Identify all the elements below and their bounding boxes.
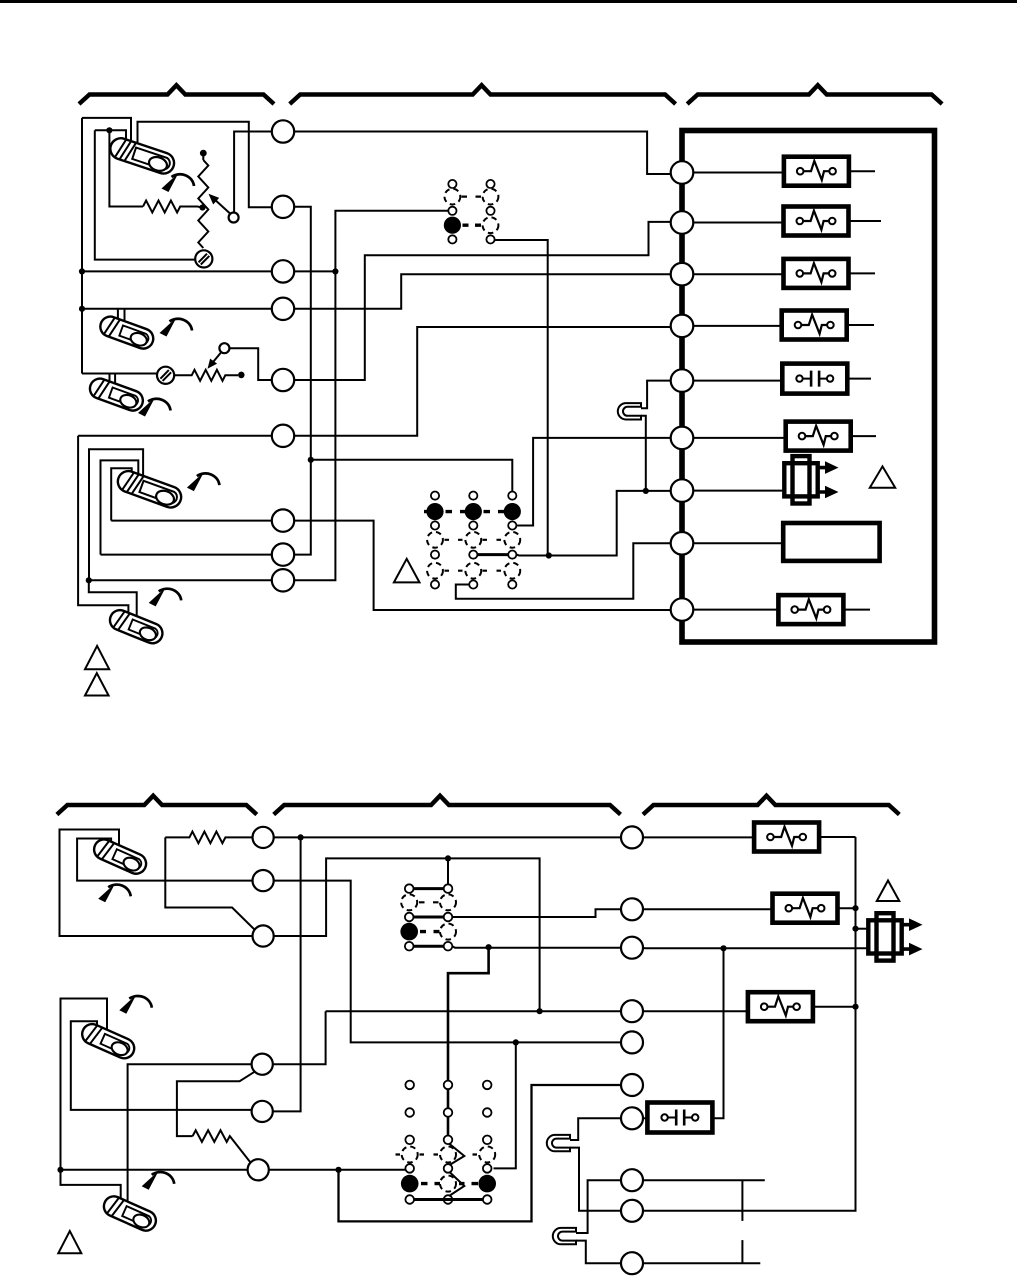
wire: inner loop bulb 1 to terminal B2 <box>77 839 252 881</box>
thermostat terminal T8 <box>272 543 294 565</box>
note triangle at transformer <box>870 466 895 487</box>
wire: wiper to terminal T1 <box>234 132 272 213</box>
mercury bulb switch bottom 2 <box>79 1021 137 1062</box>
wire: T7 bracket to bulb 4 lead 3 <box>111 468 132 520</box>
mercury bulb switch bottom 1 <box>91 836 149 877</box>
junction dot T4 line on left bus <box>79 306 85 312</box>
relay coil R4 <box>782 311 847 340</box>
pilot lamp bottom 2 <box>553 1228 576 1244</box>
thermostat terminal T3 <box>272 260 294 282</box>
lower connector cluster column 1 <box>426 492 443 589</box>
junction dot row 947 <box>486 944 492 950</box>
junction dot BR3 lead <box>852 1004 858 1010</box>
wire: T1 to equipment terminal 1 <box>294 132 671 175</box>
rotation arc arrow bulb 4 <box>187 472 220 491</box>
brace 1 bottom diagram <box>57 796 257 815</box>
wire: vertical net T3/T9/upper cluster <box>294 211 448 581</box>
wire: T4 line <box>82 308 272 310</box>
dashed links bottom cluster row 1154 <box>396 1153 478 1155</box>
note triangle at cluster <box>394 559 420 583</box>
junction dot contactor riser <box>720 945 726 951</box>
dashed links lower cluster row 4 <box>445 539 502 541</box>
rotation arc arrow thermostat 1 <box>162 173 195 192</box>
note triangle at bottom transformer <box>877 881 900 902</box>
group3 terminal G1 <box>252 1054 273 1075</box>
page top border line <box>0 0 1017 3</box>
wire: relay R9 leads <box>694 609 871 611</box>
resistor: anticipator group3 <box>193 1130 251 1162</box>
wire: contactor leads bottom <box>643 948 724 1118</box>
pilot lamp top diagram <box>618 403 641 419</box>
potentiometer: vertical resistance wire thermostat 1 <box>198 160 208 248</box>
wire: L7 row to pilot lamp 1 <box>570 1118 621 1140</box>
wire: left bus vertical of thermostat 1 <box>81 118 83 374</box>
group3 terminal G3 <box>248 1159 269 1180</box>
group3 terminal G2 <box>252 1101 273 1122</box>
wire: equipment terminal 5 down to pilot lamp <box>641 381 671 409</box>
junction dot G3 row right <box>335 1167 341 1173</box>
wire: B1 row to load terminal L1 <box>274 836 621 838</box>
wire: relay BR3 leads <box>643 1007 856 1012</box>
wire: bulb 3 leads <box>110 374 116 393</box>
wire: group2 outer loop <box>61 999 108 1171</box>
mercury bulb switch 3 <box>87 376 146 414</box>
wire: T2 right stub down to T8 <box>294 207 311 555</box>
wire: junction to lower connector cluster col3 <box>311 460 513 492</box>
note triangle 1 <box>85 646 109 669</box>
load terminal L8 <box>621 1169 643 1191</box>
rotation arc arrow bottom 2 <box>119 995 152 1014</box>
relay coil BR1 <box>754 823 819 852</box>
junction dot on B1 row <box>298 834 304 840</box>
wire: middle cluster row5 to load terminal L3 <box>452 946 621 948</box>
equipment terminal E4 <box>671 315 694 338</box>
wire: T7 to equipment terminal 9 <box>294 521 671 610</box>
bottom connector cluster column 3 <box>478 1081 496 1204</box>
wire: T9 line <box>89 579 272 581</box>
wiper arrow thermostat 1 <box>216 200 231 214</box>
thermostat terminal T4 <box>272 298 294 320</box>
wire: contactor leads <box>694 379 872 381</box>
contactor coil bottom diagram <box>647 1103 712 1133</box>
junction dot T9 line <box>86 577 92 583</box>
wire: relay R1 leads <box>694 171 876 172</box>
wire: relay BR1 leads <box>643 836 856 838</box>
wire: row 1011 corner down to group3 T1 <box>273 1011 326 1064</box>
equipment terminal E9 <box>671 598 694 621</box>
junction dot row 1042 <box>513 1039 519 1045</box>
junction dot T3 stub <box>332 268 338 274</box>
wire: relay R3 leads <box>694 272 876 275</box>
middle connector cluster column 1 <box>400 884 418 950</box>
equipment terminal E6 <box>671 427 694 450</box>
thermostat terminal B1 <box>253 827 274 848</box>
wire: G1 switch blade to resistor <box>177 1072 255 1136</box>
load terminal L5 <box>621 1031 643 1053</box>
wire: branch down to middle cluster col2 <box>447 858 449 884</box>
junction dot G3 left <box>57 1167 63 1173</box>
link bar bottom cluster row 1199 <box>414 1198 483 1201</box>
wire: B3 up and across <box>274 858 540 1011</box>
thermostat terminal B3 <box>253 925 274 946</box>
equipment terminal E8 <box>671 532 694 555</box>
selector zigzag linkage <box>449 1144 464 1197</box>
junction dot lead C <box>106 127 112 133</box>
bottom connector cluster column 1 <box>401 1081 419 1204</box>
junction dot transformer top lead <box>852 926 858 932</box>
wire: G3 row branch to load terminal L6 riser <box>339 1085 622 1221</box>
wire: selector linkage thick path <box>448 947 489 1136</box>
rotation arc arrow bottom 3 <box>142 1171 175 1190</box>
wire: top horizontal to bulb lead A <box>82 118 131 152</box>
load terminal L2 <box>621 898 643 920</box>
thermostat terminal T2 <box>272 196 294 218</box>
mercury bulb switch 4 <box>115 468 184 510</box>
lower connector cluster column 3 <box>504 492 521 589</box>
dashed links middle cluster <box>419 901 439 903</box>
thermostat terminal T9 <box>272 569 294 591</box>
wire: outer T6 branch down to bulb 5 lead 2 <box>78 436 128 622</box>
load terminal L3 <box>621 937 643 959</box>
wire: pilot lamp to junction <box>641 416 646 491</box>
equipment terminal E7 <box>671 479 694 502</box>
wire: blank box lead <box>694 542 784 544</box>
dashed links lower cluster row 6 <box>445 570 502 572</box>
wire: lower bus to bulb 3 and screw <box>82 373 157 375</box>
thermostat terminal T6 <box>272 425 294 447</box>
load terminal L10 <box>621 1252 643 1274</box>
wiper contact circle thermostat 2 <box>219 343 229 353</box>
resistor: cooling anticipator <box>174 370 238 381</box>
connection bar 2 <box>741 1240 743 1263</box>
thermostat terminal T5 <box>272 369 294 391</box>
wire: wiper 2 to terminal T5 <box>229 348 272 380</box>
wire: group2 inner loop to T2 <box>71 1021 252 1110</box>
lower connector cluster column 2 <box>465 492 482 589</box>
wire: B2 down and across to load terminal L5 <box>274 881 621 1043</box>
brace 2 top (subbase section) <box>290 85 676 104</box>
wire: pilot lamp 2 to L10 row <box>576 1241 621 1264</box>
wire: cluster col2 bottom to equipment terminal 8 <box>456 543 671 599</box>
load terminal L4 <box>621 1000 643 1022</box>
mercury bulb switch bottom 3 <box>101 1193 159 1234</box>
dashed links upper cluster <box>462 196 482 198</box>
wire: outer loop bulb 1 to terminal B3 <box>60 830 253 937</box>
mercury bulb switch 2 (cooling) <box>98 314 157 352</box>
relay coil R9 <box>778 595 843 624</box>
wire: relay R4 leads <box>694 324 875 327</box>
dashed links bottom cluster row 1183 <box>421 1182 478 1185</box>
connection bar 1 <box>741 1180 743 1221</box>
relay coil BR2 <box>773 894 838 923</box>
link bars middle cluster <box>414 889 444 947</box>
wire: T9 bracket to bulb 4 lead 1 <box>89 449 143 580</box>
load terminal L9 <box>621 1200 643 1222</box>
upper connector cluster column 1 <box>444 180 461 244</box>
wire: T9 dot down to bulb 5 lead <box>89 580 137 624</box>
junction dot on T2/T8 vertical <box>308 457 314 463</box>
bottom connector cluster column 2 <box>440 1081 456 1204</box>
wire: transformer top lead <box>856 928 869 930</box>
wire: T7 line <box>111 520 272 522</box>
wire: transformer primary lead <box>694 490 786 492</box>
pilot lamp bottom 1 <box>547 1135 570 1151</box>
junction dot cluster wire <box>546 552 552 558</box>
wire: upper cluster col2 to lower junction <box>495 240 548 556</box>
wire: row 1042 branch to cluster col3 <box>494 1042 516 1168</box>
brace 1 top (thermostat section) <box>79 85 274 104</box>
wire: G1 left lead to bulb 3 lead2 <box>128 1064 252 1212</box>
thermostat terminal T1 <box>272 120 294 142</box>
wire: pilot lamp 1 to L9 row <box>570 1148 621 1211</box>
wire: G3 row <box>61 1169 406 1171</box>
note triangle 2 <box>85 673 109 695</box>
rotation arc arrow bottom 1 <box>98 883 131 902</box>
wire: left bus down to bulb 3 lead1 <box>61 1170 121 1210</box>
middle connector cluster column 2 <box>440 884 456 950</box>
wire: L8 row right stub <box>643 1179 765 1181</box>
wire: equipment terminal 6 to cluster col3 <box>517 438 671 526</box>
wire: L3 row to transformer bottom lead <box>643 947 868 950</box>
wire: long vertical B1 to group3 T2 <box>273 837 301 1111</box>
brace 3 top (equipment section) <box>687 85 942 104</box>
wire: switch blade to terminal B3 <box>165 837 254 929</box>
wire: T4 to equipment terminal 3 <box>294 274 671 309</box>
wire: bulb 2 leads from T4 line <box>118 309 125 330</box>
wire: loop to screw terminal <box>95 130 195 259</box>
wire: T3 right stub <box>294 270 335 272</box>
junction dot T3 line on left bus <box>79 268 85 274</box>
wire: bulb lead C branch <box>95 130 126 152</box>
wire: T6 to equipment terminal 4 <box>294 327 671 436</box>
equipment terminal E5 <box>671 369 694 392</box>
wire: relay R6 leads <box>694 436 877 438</box>
screw terminal thermostat 2 <box>157 367 174 384</box>
junction dot potentiometer top <box>200 150 207 157</box>
wire: L8 row to pilot lamp 2 <box>576 1180 621 1233</box>
transformer bottom diagram <box>868 913 922 960</box>
junction dot cluster feed <box>445 855 451 861</box>
wire: middle cluster row3 to load terminal L2 <box>452 909 621 917</box>
blank equipment rectangle <box>783 523 879 561</box>
wire: cluster row5 to equipment terminal 7 <box>478 553 509 556</box>
junction dot lamp to terminal 7 wire <box>643 488 649 494</box>
note triangle bottom diagram <box>58 1231 81 1253</box>
wire: T8 bracket to bulb 4 lead 2 <box>101 460 139 554</box>
wiper contact circle thermostat 1 <box>229 213 239 223</box>
wire: row 1011 to load terminal L4 <box>326 1010 621 1012</box>
rotation arc arrow bulb 2 <box>160 318 193 337</box>
relay coil R6 <box>786 422 851 451</box>
rotation arc arrow bulb 5 <box>149 587 182 606</box>
dashed links lower cluster filled row <box>424 510 505 513</box>
thermostat terminal T7 <box>272 509 294 531</box>
equipment terminal E1 <box>671 161 694 184</box>
wire: right bus vertical <box>643 837 856 1211</box>
equipment box top diagram <box>682 131 935 643</box>
transformer top diagram <box>784 456 838 503</box>
junction dot potentiometer tap <box>199 204 205 210</box>
mercury bulb switch 5 <box>107 607 165 646</box>
relay coil R3 <box>784 259 849 288</box>
wire: bulb lead B to terminal T2 <box>138 122 273 208</box>
rotation arc arrow bulb 3 <box>138 398 171 417</box>
wire: potentiometer top stub <box>202 153 204 160</box>
wire: T5 to equipment terminal 2 <box>294 222 671 380</box>
relay coil R2 <box>784 207 849 236</box>
resistor: anticipator bottom 1 <box>165 832 252 844</box>
relay coil R1 <box>784 157 849 186</box>
thermostat terminal B2 <box>253 870 274 891</box>
wire: dot down to heat anticipator resistor <box>109 130 143 206</box>
wire: T3 line <box>82 270 272 272</box>
load terminal L1 <box>621 826 643 848</box>
wire: relay BR2 leads <box>643 908 856 909</box>
brace 3 bottom diagram <box>643 796 899 815</box>
junction dot BR2 lead <box>852 905 858 911</box>
screw terminal thermostat 1 <box>195 250 212 267</box>
relay coil BR3 <box>748 992 813 1021</box>
brace 2 bottom diagram <box>274 796 621 815</box>
wire: L10 row right stub <box>643 1262 760 1264</box>
wire: T6 line <box>78 435 271 437</box>
resistor: heat anticipator thermostat 1 <box>143 201 202 213</box>
mercury bulb switch thermostat 1 <box>108 135 177 176</box>
equipment terminal E2 <box>671 211 694 234</box>
junction dot row 1011 <box>537 1008 543 1014</box>
contactor coil (capacitor style) <box>782 364 847 394</box>
junction dot anticipator end <box>238 372 245 379</box>
load terminal L6 <box>621 1074 643 1096</box>
upper connector cluster column 2 <box>483 180 499 244</box>
equipment terminal E3 <box>671 263 694 286</box>
wire: T8 line <box>101 554 273 556</box>
wire: relay R2 leads <box>694 221 882 223</box>
wiper arrow thermostat 2 <box>214 352 222 361</box>
load terminal L7 <box>621 1107 643 1129</box>
